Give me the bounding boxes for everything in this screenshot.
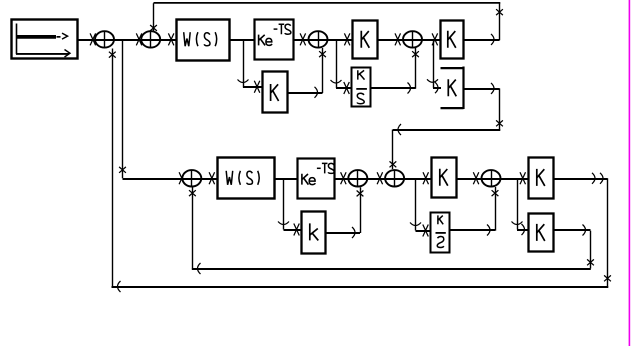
wire W(S)#2 to Ke-TS #2 (274, 178, 297, 180)
gain block k2b (below Ke-TS #2) (302, 212, 326, 254)
wire W(S)#1 to Ke-TS #1 (229, 39, 255, 41)
wire J7 to gain K3 (404, 172, 431, 184)
wire K3 to sum J8 (456, 172, 481, 184)
block W(S) #2 (218, 158, 275, 199)
feedback riser x=499.5 up to top line (496, 3, 503, 40)
branch J8 output down to gain K5 (512, 178, 529, 235)
wire K2b output right to cross-feed drop (464, 83, 500, 94)
wire J4 to gain K2 (422, 33, 440, 45)
wire K/S#1 output up into J4 (371, 48, 419, 94)
gain block K1b (below Ke-TS #1) (263, 72, 288, 113)
summing junction J4 (402, 31, 423, 49)
summing junction J3 (308, 31, 329, 49)
output drop x=607.5 down to line B (604, 178, 611, 286)
summing junction J8 (481, 170, 502, 188)
integrator block K/S #2 (431, 213, 450, 253)
summing junction J1 (94, 31, 115, 49)
wire K4 output to output drop (553, 173, 608, 184)
cross-feed horizontal y=129.5 (393, 124, 500, 135)
wire K5 output down to line A (553, 225, 594, 269)
wire K2 output to feedback riser (463, 34, 500, 45)
line A riser up into J5 (189, 187, 196, 269)
tap line down from J1-J2 wire to J5 (119, 39, 185, 184)
integrator block K/S #1 (352, 68, 371, 107)
wire K/S#2 output up into J8 (449, 187, 498, 236)
wire J6 to sum J7 (367, 172, 385, 184)
wire J3 to gain K1 (328, 33, 353, 45)
magenta right border line (628, 0, 630, 346)
summing junction J7 (384, 170, 405, 188)
branch W(S)#1 output down to K1b (238, 39, 263, 92)
top feedback line y=4 (154, 2, 501, 4)
wire K1 to sum J4 (378, 33, 404, 45)
feedback line A y=268.5 (192, 263, 591, 274)
gain block K4 (529, 158, 554, 199)
wire Ke-TS#2 to sum J6 (335, 172, 349, 184)
feedback riser from line B up into J1 (109, 49, 116, 287)
wire J1 to sum J2 (114, 33, 142, 45)
gain block K3 (432, 158, 457, 198)
open gain block K2b (no left edge) (441, 67, 464, 110)
wire J2 to block W(S) #1 (160, 33, 176, 45)
branch J3 output down to K/S #1 (331, 39, 352, 94)
wire J8 to gain K4 (501, 172, 529, 184)
wire source to sum J1 (78, 33, 96, 45)
cross-feed drop into J7 top (390, 130, 397, 170)
gain block K2 (441, 21, 464, 59)
wire K1b output up into J3 (287, 48, 326, 98)
wire Ke-TS#1 to sum J3 (293, 33, 308, 45)
cross-feed drop x=499.5 y88-129 (496, 88, 503, 129)
wire J5 to W(S) #2 (201, 172, 217, 184)
summing junction J5 (181, 170, 202, 188)
block Ke^-TS #1 (delay) (255, 20, 294, 60)
feedback drop into J2 top (150, 3, 157, 31)
gain block K1 (353, 21, 378, 59)
summing junction J2 (140, 31, 161, 49)
block W(S) #1 (177, 20, 230, 61)
wire k2b output up into J6 (326, 187, 364, 238)
block Ke^-TS #2 (delay) (298, 159, 335, 199)
branch W(S)#2 output down to k2b (278, 178, 302, 235)
feedback line B y=286.5 (112, 281, 609, 292)
branch J7 output down to K/S #2 (410, 178, 431, 236)
gain block K5 (529, 214, 554, 252)
source block: step input generator icon (12, 20, 78, 59)
branch J4 output down to open gain block K2b (427, 39, 441, 93)
summing junction J6 (347, 170, 368, 188)
